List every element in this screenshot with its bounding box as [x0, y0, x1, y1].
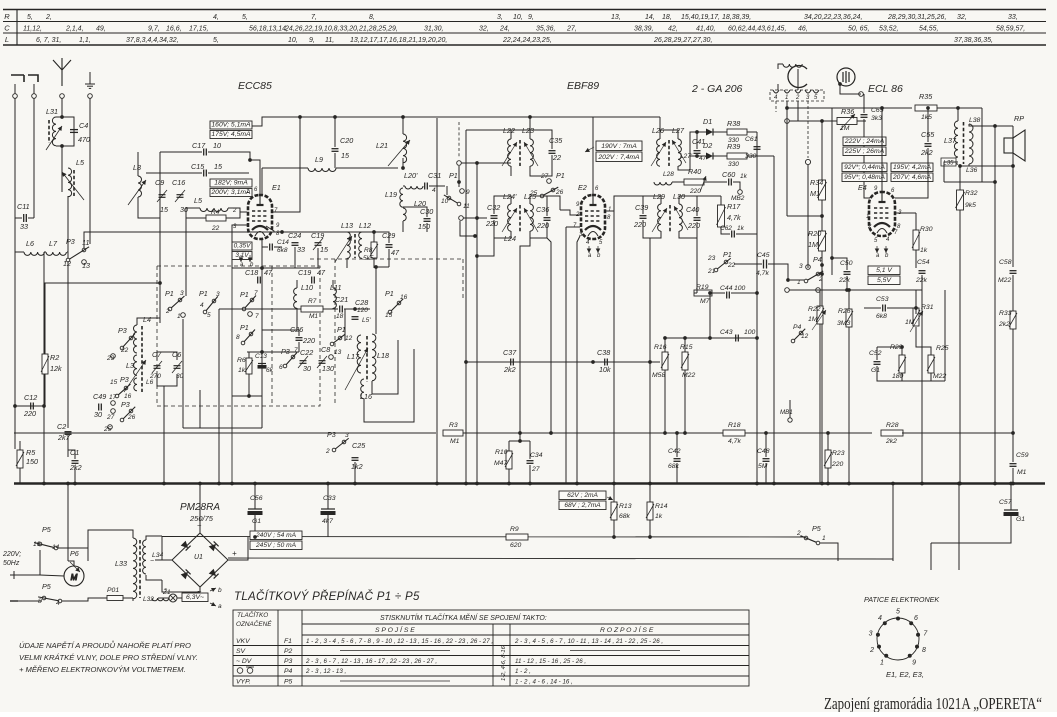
R10 bot	[508, 469, 510, 483]
j x922 bus	[920, 482, 924, 486]
R15 top	[684, 338, 686, 352]
tuning arrow L5	[62, 172, 84, 200]
j 477 163	[475, 161, 479, 165]
j R32 bus	[958, 482, 962, 486]
svg-text:R33: R33	[999, 310, 1012, 317]
svg-text:1: 1	[246, 189, 249, 195]
ground lead	[89, 72, 91, 84]
anode to C17	[249, 152, 251, 160]
L29 top	[643, 196, 661, 214]
C48 to bus	[765, 463, 767, 483]
svg-text:3: 3	[799, 263, 803, 270]
j 757 293	[755, 291, 759, 295]
terminal B lead	[33, 84, 35, 94]
L25 frame	[530, 196, 547, 216]
switch P3 22	[129, 336, 133, 340]
svg-text:6k8: 6k8	[277, 247, 288, 254]
svg-text:b: b	[218, 587, 222, 594]
j 466 362	[464, 360, 468, 364]
svg-text:47: 47	[264, 268, 273, 277]
svg-text:225V ; 26mA: 225V ; 26mA	[844, 148, 885, 155]
C32 bottom	[494, 220, 511, 238]
mixer drop x376	[375, 267, 377, 334]
j x757	[755, 482, 759, 486]
svg-text:P1: P1	[723, 250, 732, 259]
svg-text:C20: C20	[340, 136, 353, 145]
C29 bottom	[388, 249, 390, 267]
svg-text:S P O J Í S E: S P O J Í S E	[375, 625, 415, 634]
coil L7	[46, 252, 66, 255]
voltage box 222V	[843, 137, 886, 146]
capacitor C36	[544, 218, 551, 221]
core L5	[73, 170, 75, 196]
gram wire y264b	[768, 264, 788, 280]
j 477 218	[475, 216, 479, 220]
y308 wire	[864, 307, 881, 309]
svg-text:240V ; 54 mA: 240V ; 54 mA	[255, 532, 297, 539]
plate wire to 982	[937, 107, 982, 109]
svg-text:2: 2	[232, 208, 237, 214]
resistor R22	[817, 306, 823, 324]
coil L20	[403, 208, 406, 221]
svg-text:C14: C14	[277, 239, 289, 246]
j C41b	[695, 154, 699, 158]
svg-text:22,24,24,23,25,: 22,24,24,23,25,	[502, 37, 552, 44]
mains wire top	[18, 550, 40, 575]
C56 down	[254, 514, 256, 537]
svg-text:26,28,29,27,27,30,: 26,28,29,27,27,30,	[653, 37, 712, 44]
R40-C60	[704, 181, 727, 183]
wire y396	[232, 395, 262, 397]
svg-text:1k: 1k	[920, 247, 928, 254]
arrow L30	[674, 206, 688, 230]
core L4 L3	[141, 326, 143, 392]
svg-text:M22: M22	[933, 373, 946, 380]
R6 bottom lead	[248, 374, 250, 396]
j C56	[253, 482, 257, 486]
svg-text:5,: 5,	[27, 14, 33, 21]
svg-text:68k: 68k	[619, 513, 631, 520]
dashed shield divider	[271, 266, 273, 406]
j C50	[830, 256, 834, 260]
v x477	[476, 163, 478, 483]
svg-text:ECC85: ECC85	[238, 80, 272, 92]
svg-text:11: 11	[463, 203, 470, 210]
heater arrow a	[240, 255, 242, 262]
arrow L27	[672, 140, 686, 163]
connector pin 2 fork	[784, 90, 790, 93]
svg-text:D2: D2	[703, 141, 712, 150]
capacitor C35	[549, 151, 556, 154]
socket pin 3	[876, 633, 880, 637]
contact 25 circle	[108, 425, 113, 430]
minus wire	[155, 559, 162, 561]
R2 top	[45, 283, 160, 354]
svg-text:C38: C38	[597, 348, 610, 357]
capacitor C32	[491, 216, 498, 219]
resistor R19	[694, 290, 712, 296]
coil L18	[372, 334, 376, 381]
terminal B circle	[32, 94, 37, 99]
C20 bottom	[334, 153, 336, 168]
svg-text:2,: 2,	[45, 14, 52, 21]
wire y309	[219, 308, 301, 310]
R8 top	[373, 232, 375, 242]
v x186	[185, 218, 187, 296]
svg-text:+: +	[232, 549, 237, 558]
svg-text:R18: R18	[728, 422, 741, 429]
rect plus wire	[247, 537, 249, 538]
svg-text:E4: E4	[858, 183, 867, 192]
svg-text:100: 100	[744, 329, 756, 336]
C14 right lead	[274, 246, 282, 248]
svg-text:P1: P1	[165, 289, 174, 298]
svg-text:1k5: 1k5	[921, 114, 932, 121]
svg-text:5,1 V: 5,1 V	[876, 267, 893, 274]
C12 wire	[27, 405, 44, 407]
coil L33	[133, 538, 137, 599]
wire y433 left	[14, 432, 64, 434]
svg-text:13: 13	[334, 349, 342, 356]
gram wire y264	[734, 263, 762, 265]
svg-text:D1: D1	[703, 117, 712, 126]
svg-text:P2: P2	[284, 648, 293, 655]
j x160 283	[158, 281, 162, 285]
det wire1	[678, 132, 706, 170]
C17 right	[208, 152, 250, 160]
resistor R20	[819, 231, 826, 251]
svg-text:1: 1	[866, 214, 869, 220]
svg-text:MB2: MB2	[731, 195, 745, 202]
svg-text:32,: 32,	[957, 14, 967, 21]
R8 bottom	[373, 258, 375, 268]
R6 top lead	[248, 352, 250, 358]
svg-text:15: 15	[341, 151, 350, 160]
L30 to R17	[697, 195, 721, 197]
arrow R22	[812, 310, 826, 330]
j R16 y433	[663, 431, 667, 435]
connector pin 4 fork	[805, 90, 811, 93]
svg-text:R34: R34	[810, 178, 823, 187]
R20 bot	[821, 251, 823, 483]
v x697b	[696, 238, 698, 293]
arrow L21	[388, 140, 410, 166]
R32 top	[959, 166, 961, 190]
bridge diode 3	[181, 569, 191, 579]
jack to P4	[807, 165, 809, 268]
motor arrow	[70, 562, 80, 572]
speaker bottom lead	[1012, 153, 1014, 166]
svg-text:L31: L31	[46, 107, 58, 116]
svg-text:L28: L28	[663, 171, 674, 178]
j 710 338	[708, 336, 712, 340]
svg-text:3: 3	[180, 290, 184, 297]
C2 to C1	[67, 436, 69, 457]
v x297 down	[296, 309, 298, 330]
svg-text:18,: 18,	[662, 14, 672, 21]
C25 to bus	[354, 462, 356, 483]
svg-text:33,: 33,	[1008, 14, 1018, 21]
R26 top	[848, 290, 850, 309]
v x183 down	[182, 319, 184, 428]
bridge diode 4	[209, 569, 219, 579]
svg-text:3,: 3,	[497, 14, 503, 21]
svg-text:P1: P1	[385, 289, 394, 298]
svg-text:VYP.: VYP.	[236, 679, 251, 686]
R19 wire	[694, 292, 697, 294]
resistor R30	[913, 230, 919, 250]
trimmer C19	[313, 238, 323, 250]
svg-text:2 - GA 206: 2 - GA 206	[691, 83, 743, 95]
svg-text:R19: R19	[696, 284, 709, 291]
C35 top	[530, 130, 552, 149]
switch P1 21-22	[724, 260, 728, 264]
capacitor C45	[764, 260, 767, 269]
svg-text:150: 150	[418, 222, 430, 231]
resistor R39	[727, 153, 747, 159]
svg-text:1M: 1M	[808, 240, 818, 249]
svg-text:130: 130	[322, 364, 334, 373]
coil L27	[678, 139, 681, 166]
switch P1 2-3	[178, 298, 182, 302]
capacitor C19 47	[312, 277, 315, 284]
coil L37 primary	[954, 121, 958, 164]
motor M	[64, 566, 84, 586]
svg-text:P5: P5	[42, 525, 52, 534]
svg-text:6: 6	[914, 615, 918, 622]
R16 top	[664, 338, 666, 352]
coil L23	[530, 139, 533, 166]
j 475 236	[473, 234, 477, 238]
connector box dashed	[770, 90, 824, 101]
voltage box 62V	[559, 491, 606, 500]
connector pin 1 fork	[773, 90, 779, 93]
svg-text:220V;: 220V;	[2, 551, 21, 558]
R26 bot	[848, 327, 850, 483]
svg-text:P3: P3	[284, 658, 293, 665]
tube socket circle	[877, 618, 919, 660]
svg-text:1 - 2 , 3 - 4 , 5 - 6 , 7 - 8: 1 - 2 , 3 - 4 , 5 - 6 , 7 - 8 , 9 - 10 ,…	[306, 638, 493, 645]
R4 left	[186, 208, 206, 218]
j 822 274	[820, 272, 824, 276]
coil L21	[403, 134, 407, 163]
svg-text:P4: P4	[813, 255, 822, 264]
E4 anode	[881, 108, 883, 192]
contact 27 circle	[111, 409, 116, 414]
triode-pentode E4 ECL86	[869, 192, 895, 236]
svg-text:54,55,: 54,55,	[919, 26, 939, 33]
capacitor C33 electrolytic	[321, 509, 335, 515]
L18 bottom	[372, 340, 398, 394]
C42 to bus	[676, 463, 678, 483]
C53 out	[887, 307, 916, 309]
E2 pin7 wire	[566, 226, 580, 228]
bus drop to motor	[67, 484, 69, 561]
j x774 bus	[772, 482, 776, 486]
dashed osc box left	[334, 259, 336, 406]
svg-text:7: 7	[255, 313, 259, 320]
resistor R5	[17, 450, 23, 468]
svg-text:68k: 68k	[668, 463, 680, 470]
coil L32	[152, 598, 169, 601]
svg-text:16: 16	[124, 393, 132, 400]
terminal node 459 163	[457, 161, 462, 166]
svg-text:R15: R15	[680, 344, 693, 351]
svg-text:33: 33	[20, 222, 28, 231]
svg-text:160V; 5,1mA: 160V; 5,1mA	[211, 122, 251, 129]
coil L22	[508, 139, 511, 166]
R16 bot	[664, 370, 666, 433]
j R33 y433	[1011, 431, 1015, 435]
bridge left wire	[162, 536, 172, 560]
capacitor C28	[352, 317, 359, 320]
resistor R9	[506, 534, 528, 540]
L7 right lead	[67, 210, 68, 252]
R13 up	[613, 483, 615, 502]
v x757	[756, 132, 758, 483]
svg-text:12k: 12k	[50, 364, 62, 373]
voltage box 5,1V	[868, 266, 900, 275]
v x1013	[1012, 166, 1014, 267]
svg-text:5,5V: 5,5V	[877, 277, 892, 284]
mains terminal 1	[10, 571, 18, 579]
svg-text:245V ; 50 mA: 245V ; 50 mA	[255, 542, 297, 549]
svg-text:R17: R17	[727, 202, 741, 211]
R14 up	[649, 483, 651, 502]
svg-text:34,20,22,23,36,24,: 34,20,22,23,36,24,	[804, 14, 862, 21]
svg-text:37,38,36,35,: 37,38,36,35,	[954, 37, 993, 44]
arrow L3	[124, 360, 146, 392]
wire x44 down	[43, 252, 45, 406]
terminal R22 top	[816, 288, 821, 293]
L21 bottom	[402, 158, 404, 168]
antenna symbol	[53, 58, 71, 86]
crystal to wire	[840, 84, 861, 94]
C50 top	[832, 258, 847, 270]
D2 in	[690, 155, 706, 157]
switch P3 25-26	[129, 409, 133, 413]
coil L19	[400, 188, 403, 207]
C48 top	[765, 433, 767, 457]
svg-text:2k7: 2k7	[57, 433, 71, 442]
svg-text:1 - 2 , 4 - 6 , 14 - 16 ,: 1 - 2 , 4 - 6 , 14 - 16 ,	[515, 679, 573, 686]
svg-text:26: 26	[127, 414, 136, 421]
trimmer C8	[317, 356, 327, 368]
svg-text:C4: C4	[79, 121, 88, 130]
svg-text:15: 15	[110, 379, 118, 386]
contact1 wire	[790, 279, 804, 281]
L19L20 join	[403, 207, 427, 217]
svg-text:11: 11	[82, 238, 89, 247]
svg-text:C48: C48	[757, 448, 770, 455]
svg-text:9,7,: 9,7,	[148, 26, 160, 33]
v x995	[994, 126, 996, 483]
y290 wire	[789, 289, 922, 291]
v x931	[930, 543, 932, 570]
svg-text:R23: R23	[832, 450, 845, 457]
j 459 182	[457, 180, 461, 184]
svg-text:R4: R4	[211, 209, 220, 216]
P5 14 up	[58, 548, 88, 561]
R38 out	[747, 131, 757, 133]
L6 right lead	[44, 251, 46, 253]
switch P5 14-16	[38, 542, 42, 546]
capacitor C50	[844, 272, 851, 275]
j R29 top	[900, 345, 904, 349]
svg-text:C35: C35	[549, 136, 563, 145]
R23 bot	[827, 468, 829, 483]
L8 bottom	[138, 197, 160, 218]
dipole antenna input terminal A	[11, 75, 24, 82]
R15 bot	[684, 370, 686, 433]
svg-text:R28: R28	[886, 422, 899, 429]
P4 to column	[818, 273, 822, 275]
table dash P5	[340, 680, 450, 682]
capacitor C40	[694, 218, 701, 221]
svg-text:R38: R38	[727, 119, 740, 128]
svg-text:L6: L6	[146, 379, 154, 386]
j 960 166	[958, 164, 962, 168]
switch P1 4-5	[212, 299, 216, 303]
j 822 265	[820, 263, 824, 267]
svg-text:26: 26	[555, 189, 564, 196]
C54 bot	[921, 275, 923, 290]
capacitor C14	[270, 244, 273, 251]
resistor R17	[718, 205, 725, 227]
svg-text:P4: P4	[793, 324, 802, 331]
L22 frame	[511, 130, 530, 139]
svg-text:P5: P5	[42, 582, 52, 591]
j 249 396	[247, 394, 251, 398]
svg-text:C19: C19	[298, 268, 311, 277]
svg-text:L10: L10	[301, 283, 313, 292]
svg-text:M47: M47	[494, 460, 507, 467]
R8 C29 join	[374, 266, 389, 268]
svg-text:P4: P4	[284, 668, 293, 675]
svg-text:17: 17	[109, 394, 117, 401]
arrow L25	[524, 208, 538, 232]
svg-text:4,7k: 4,7k	[727, 213, 741, 222]
svg-text:220: 220	[302, 336, 315, 345]
coil L5b	[200, 208, 228, 212]
terminal MB2	[738, 190, 743, 195]
mains wire bottom	[18, 600, 42, 602]
diode D1	[706, 129, 713, 136]
svg-text:VELMI KRÁTKÉ VLNY, DOLE PRO ST: VELMI KRÁTKÉ VLNY, DOLE PRO STŘEDNÍ VLNY…	[19, 653, 198, 662]
capacitor C21	[340, 306, 343, 313]
svg-text:1k: 1k	[238, 367, 246, 374]
coil L24p	[508, 204, 511, 231]
svg-text:50, 65,: 50, 65,	[848, 26, 869, 33]
svg-text:L13: L13	[341, 221, 353, 230]
coil L5	[68, 168, 72, 197]
contact 9 circle	[460, 189, 465, 194]
svg-text:C8: C8	[321, 345, 330, 354]
svg-text:13,12,17,17,16,18,21,19,20,20,: 13,12,17,17,16,18,21,19,20,20,	[350, 37, 447, 44]
C33 up	[327, 483, 329, 509]
switch P1 25-26	[551, 188, 555, 192]
svg-text:2: 2	[325, 448, 330, 455]
switch P3 6-7	[291, 355, 295, 359]
resistor R28	[881, 430, 903, 436]
grid wire y216	[787, 215, 822, 217]
wire y428	[183, 427, 262, 429]
voltage box 182V	[210, 179, 252, 187]
C50 bot	[846, 276, 848, 290]
R5 leads	[19, 441, 21, 450]
core output transformer	[963, 122, 965, 164]
svg-text:4: 4	[878, 615, 882, 622]
